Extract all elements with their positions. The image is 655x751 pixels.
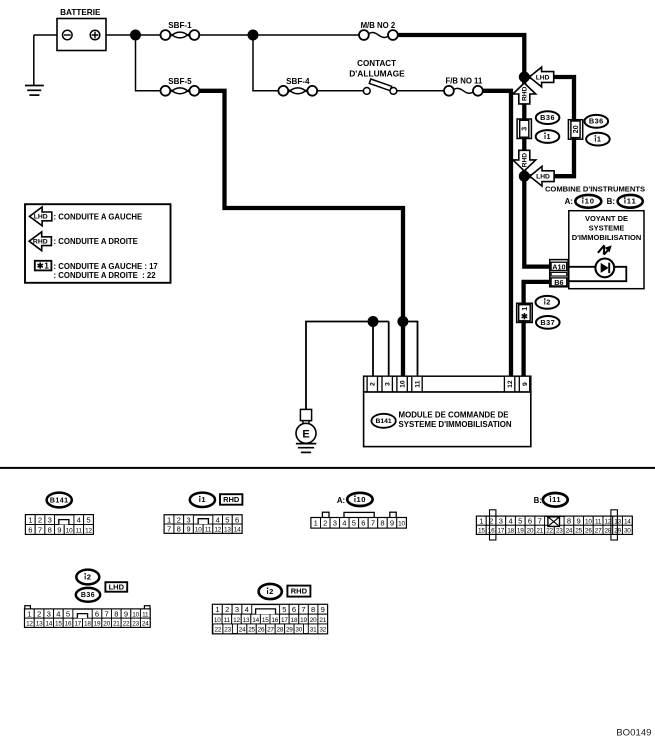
svg-text:14: 14 xyxy=(45,621,52,628)
svg-text:21: 21 xyxy=(536,528,543,535)
svg-text:7: 7 xyxy=(105,609,109,618)
svg-text:23: 23 xyxy=(132,621,139,628)
svg-text:2: 2 xyxy=(323,519,327,528)
svg-text:B141: B141 xyxy=(50,497,69,504)
svg-text:7: 7 xyxy=(167,525,171,534)
svg-text:3: 3 xyxy=(333,519,337,528)
svg-text:6: 6 xyxy=(95,609,99,618)
svg-text:26: 26 xyxy=(258,627,265,634)
svg-text:13: 13 xyxy=(224,527,231,534)
svg-text:: CONDUITE A DROITE: : CONDUITE A DROITE xyxy=(54,237,138,246)
svg-text:26: 26 xyxy=(585,528,592,535)
svg-text:10: 10 xyxy=(132,611,139,618)
svg-text:: CONDUITE A GAUCHE: : CONDUITE A GAUCHE xyxy=(54,212,143,221)
svg-text:ı10: ı10 xyxy=(582,197,595,206)
svg-text:15: 15 xyxy=(478,528,485,535)
svg-text:24: 24 xyxy=(142,621,149,628)
svg-text:10: 10 xyxy=(214,617,221,624)
svg-text:2: 2 xyxy=(177,515,181,524)
svg-text:16: 16 xyxy=(65,621,72,628)
svg-text:B36: B36 xyxy=(540,113,555,122)
svg-text:RHD: RHD xyxy=(291,587,308,596)
svg-text:F/B NO 11: F/B NO 11 xyxy=(445,77,482,86)
svg-text:5: 5 xyxy=(352,519,356,528)
svg-text:5: 5 xyxy=(66,609,70,618)
svg-text:7: 7 xyxy=(38,525,42,534)
svg-text:28: 28 xyxy=(277,627,284,634)
svg-text:COMBINE D'INSTRUMENTS: COMBINE D'INSTRUMENTS xyxy=(545,184,645,193)
svg-text:25: 25 xyxy=(575,528,582,535)
svg-text:12: 12 xyxy=(233,617,240,624)
svg-text:7: 7 xyxy=(301,605,305,614)
svg-text:9: 9 xyxy=(186,525,190,534)
svg-text:9: 9 xyxy=(57,525,61,534)
svg-text:18: 18 xyxy=(84,621,91,628)
svg-text:30: 30 xyxy=(295,627,302,634)
svg-text:29: 29 xyxy=(286,627,293,634)
svg-text:7: 7 xyxy=(538,517,542,526)
svg-text:SBF-1: SBF-1 xyxy=(168,21,192,30)
svg-text:20: 20 xyxy=(527,528,534,535)
svg-text:1: 1 xyxy=(44,261,49,271)
svg-text:16: 16 xyxy=(488,528,495,535)
svg-text:5: 5 xyxy=(518,517,522,526)
svg-text:18: 18 xyxy=(507,528,514,535)
svg-text:3: 3 xyxy=(186,515,190,524)
svg-text:3: 3 xyxy=(48,516,52,525)
svg-text:30: 30 xyxy=(624,528,631,535)
svg-text:RHD: RHD xyxy=(33,239,48,246)
svg-text:21: 21 xyxy=(319,617,326,624)
svg-text:1: 1 xyxy=(27,609,31,618)
svg-text:1: 1 xyxy=(215,605,219,614)
svg-text:11: 11 xyxy=(595,519,602,526)
svg-text:A10: A10 xyxy=(552,263,565,272)
svg-text:2: 2 xyxy=(38,516,42,525)
svg-text:3: 3 xyxy=(499,517,503,526)
svg-text:CONTACT: CONTACT xyxy=(357,59,396,68)
svg-text:1: 1 xyxy=(522,307,529,311)
svg-text:13: 13 xyxy=(36,621,43,628)
svg-text:19: 19 xyxy=(94,621,101,628)
svg-text:3: 3 xyxy=(47,609,51,618)
svg-text:5: 5 xyxy=(86,516,90,525)
svg-text:3: 3 xyxy=(522,127,529,131)
svg-text:24: 24 xyxy=(566,528,573,535)
svg-text:25: 25 xyxy=(248,627,255,634)
svg-text:: CONDUITE A DROITE : 22: : CONDUITE A DROITE : 22 xyxy=(54,271,157,280)
svg-text:24: 24 xyxy=(239,627,246,634)
svg-text:6: 6 xyxy=(361,519,365,528)
svg-text:11: 11 xyxy=(205,527,212,534)
svg-text:B:: B: xyxy=(534,496,542,505)
svg-text:9: 9 xyxy=(577,517,581,526)
svg-text:SBF-4: SBF-4 xyxy=(286,77,310,86)
svg-text:1: 1 xyxy=(314,519,318,528)
svg-text:11: 11 xyxy=(142,611,149,618)
svg-text:D'IMMOBILISATION: D'IMMOBILISATION xyxy=(572,233,642,242)
svg-text:B36: B36 xyxy=(81,592,95,599)
svg-text:B36: B36 xyxy=(589,117,604,126)
svg-text:BO0149: BO0149 xyxy=(616,728,651,739)
svg-text:22: 22 xyxy=(123,621,130,628)
svg-text:7: 7 xyxy=(371,519,375,528)
svg-text:LHD: LHD xyxy=(34,214,48,221)
svg-text:RHD: RHD xyxy=(522,86,529,101)
svg-text:31: 31 xyxy=(310,627,317,634)
svg-text:5: 5 xyxy=(282,605,286,614)
svg-text:3: 3 xyxy=(385,382,392,386)
svg-text:23: 23 xyxy=(224,627,231,634)
svg-text:4: 4 xyxy=(508,517,512,526)
svg-text:22: 22 xyxy=(215,627,222,634)
svg-text:9: 9 xyxy=(522,382,529,386)
svg-text:ı11: ı11 xyxy=(549,495,561,504)
svg-text:1: 1 xyxy=(479,517,483,526)
svg-text:17: 17 xyxy=(281,617,288,624)
svg-text:SYSTEME: SYSTEME xyxy=(589,224,625,233)
svg-text:4: 4 xyxy=(245,605,249,614)
svg-text:15: 15 xyxy=(55,621,62,628)
svg-text:6: 6 xyxy=(235,515,239,524)
svg-text:17: 17 xyxy=(74,621,81,628)
svg-text:A:: A: xyxy=(337,496,345,505)
svg-text:ı10: ı10 xyxy=(354,495,366,504)
svg-text:E: E xyxy=(302,428,309,440)
svg-text:12: 12 xyxy=(85,527,92,534)
svg-text:M/B NO 2: M/B NO 2 xyxy=(361,21,396,30)
svg-text:13: 13 xyxy=(243,617,250,624)
svg-text:22: 22 xyxy=(546,528,553,535)
svg-text:14: 14 xyxy=(624,519,631,526)
svg-text:: CONDUITE A GAUCHE : 17: : CONDUITE A GAUCHE : 17 xyxy=(54,262,158,271)
svg-text:27: 27 xyxy=(595,528,602,535)
svg-text:MODULE DE COMMANDE DE: MODULE DE COMMANDE DE xyxy=(399,410,509,419)
svg-text:ı11: ı11 xyxy=(624,197,637,206)
svg-text:9: 9 xyxy=(321,605,325,614)
svg-text:19: 19 xyxy=(300,617,307,624)
svg-text:11: 11 xyxy=(414,380,421,387)
svg-text:19: 19 xyxy=(517,528,524,535)
svg-text:10: 10 xyxy=(400,380,407,388)
svg-text:SYSTEME D'IMMOBILISATION: SYSTEME D'IMMOBILISATION xyxy=(399,420,512,429)
svg-text:9: 9 xyxy=(124,609,128,618)
svg-text:LHD: LHD xyxy=(536,174,550,181)
svg-text:8: 8 xyxy=(567,517,571,526)
svg-text:32: 32 xyxy=(319,627,326,634)
svg-text:LHD: LHD xyxy=(536,74,550,81)
svg-text:6: 6 xyxy=(528,517,532,526)
svg-text:1: 1 xyxy=(167,515,171,524)
svg-text:10: 10 xyxy=(195,527,202,534)
svg-text:8: 8 xyxy=(177,525,181,534)
svg-text:21: 21 xyxy=(113,621,120,628)
svg-text:B6: B6 xyxy=(554,278,563,287)
svg-text:14: 14 xyxy=(252,617,259,624)
svg-text:4: 4 xyxy=(77,516,81,525)
svg-text:8: 8 xyxy=(48,525,52,534)
svg-text:RHD: RHD xyxy=(522,153,529,168)
svg-text:10: 10 xyxy=(585,519,592,526)
svg-text:2: 2 xyxy=(225,605,229,614)
svg-text:16: 16 xyxy=(271,617,278,624)
svg-text:18: 18 xyxy=(291,617,298,624)
svg-text:D'ALLUMAGE: D'ALLUMAGE xyxy=(349,68,405,78)
svg-text:14: 14 xyxy=(234,527,241,534)
svg-text:B37: B37 xyxy=(540,318,555,327)
svg-text:10: 10 xyxy=(66,527,73,534)
svg-text:A:: A: xyxy=(565,197,573,206)
svg-text:12: 12 xyxy=(507,380,514,388)
svg-text:B:: B: xyxy=(607,197,615,206)
svg-text:11: 11 xyxy=(76,527,83,534)
svg-text:1: 1 xyxy=(28,516,32,525)
svg-text:4: 4 xyxy=(56,609,60,618)
svg-text:SBF-5: SBF-5 xyxy=(168,77,192,86)
svg-text:27: 27 xyxy=(267,627,274,634)
svg-text:3: 3 xyxy=(235,605,239,614)
svg-text:20: 20 xyxy=(103,621,110,628)
svg-text:8: 8 xyxy=(311,605,315,614)
svg-text:17: 17 xyxy=(497,528,504,535)
svg-text:6: 6 xyxy=(292,605,296,614)
svg-text:4: 4 xyxy=(342,519,346,528)
svg-text:2: 2 xyxy=(370,382,377,386)
svg-text:RHD: RHD xyxy=(223,495,240,504)
svg-text:BATTERIE: BATTERIE xyxy=(60,8,101,17)
svg-text:10: 10 xyxy=(398,521,405,528)
svg-text:9: 9 xyxy=(390,519,394,528)
svg-text:6: 6 xyxy=(28,525,32,534)
svg-text:8: 8 xyxy=(114,609,118,618)
svg-text:20: 20 xyxy=(310,617,317,624)
svg-text:8: 8 xyxy=(380,519,384,528)
svg-text:LHD: LHD xyxy=(109,583,125,592)
svg-text:11: 11 xyxy=(224,617,231,624)
svg-text:VOYANT DE: VOYANT DE xyxy=(585,214,628,223)
svg-text:B141: B141 xyxy=(375,418,391,425)
svg-text:23: 23 xyxy=(556,528,563,535)
svg-text:15: 15 xyxy=(262,617,269,624)
svg-text:4: 4 xyxy=(216,515,220,524)
svg-text:20: 20 xyxy=(573,125,580,133)
svg-text:5: 5 xyxy=(225,515,229,524)
svg-text:2: 2 xyxy=(37,609,41,618)
svg-text:12: 12 xyxy=(26,621,33,628)
svg-text:12: 12 xyxy=(214,527,221,534)
